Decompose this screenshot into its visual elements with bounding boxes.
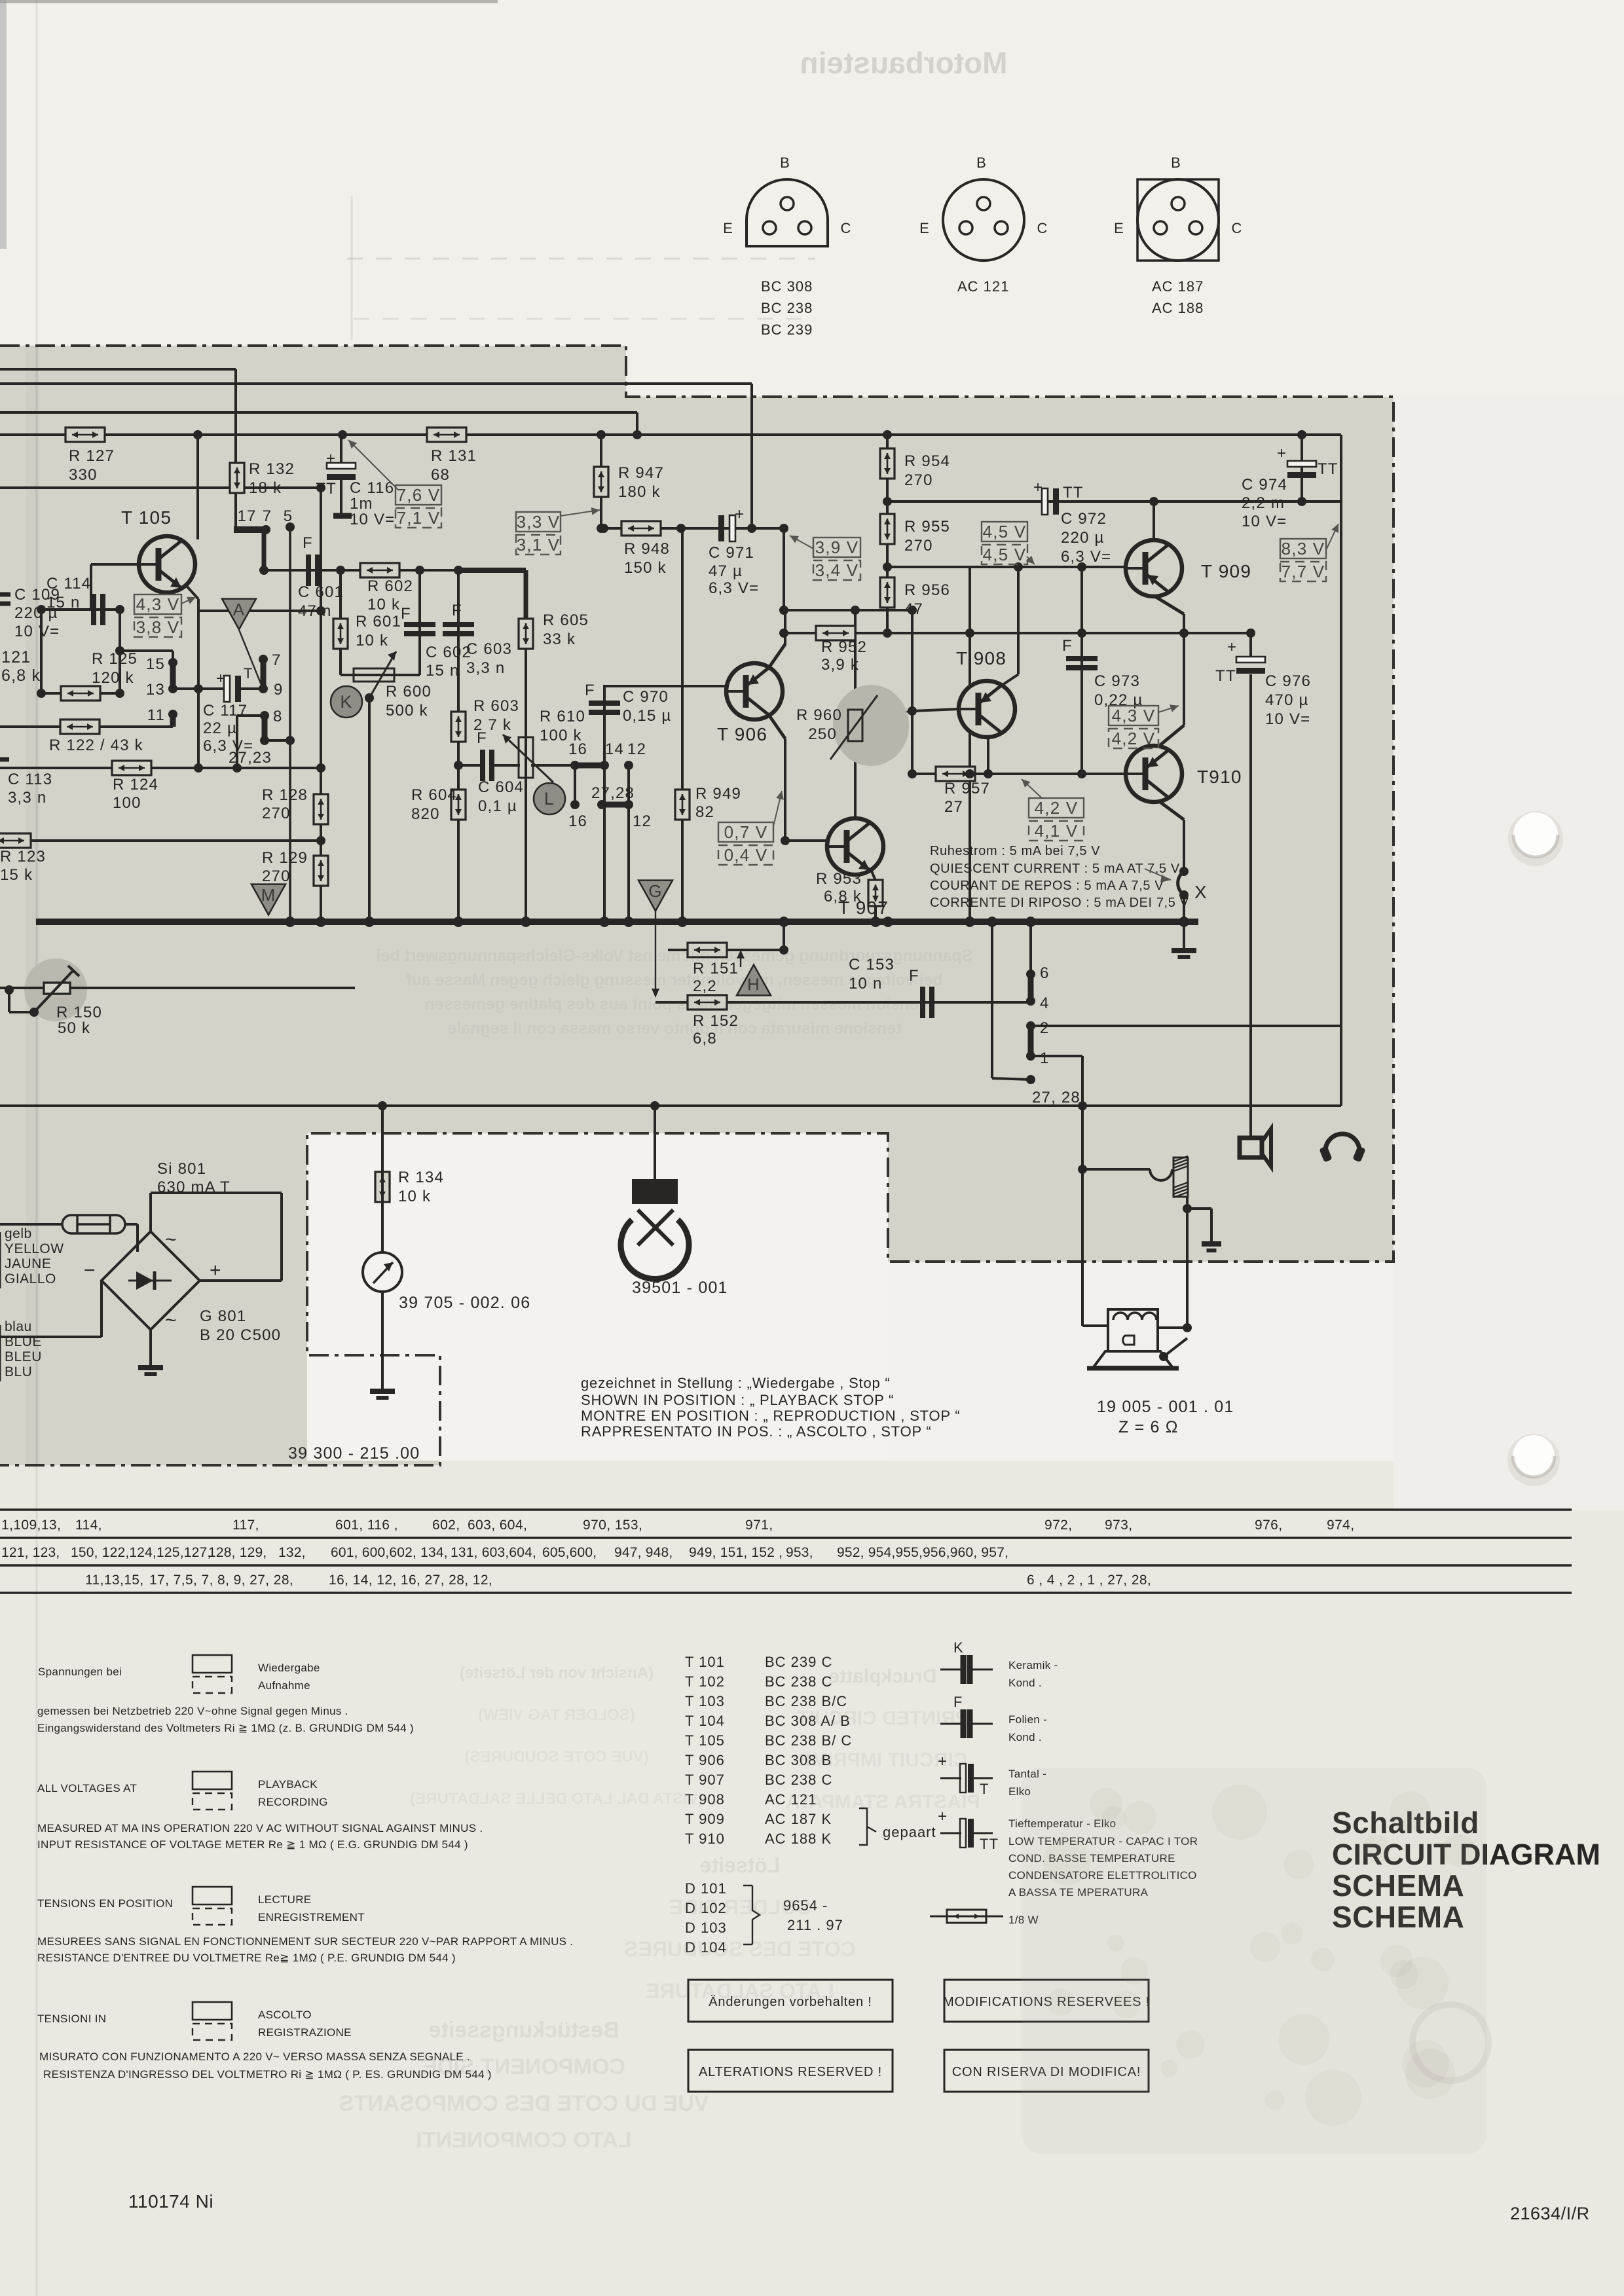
svg-text:Folien -: Folien - <box>1008 1713 1047 1726</box>
svg-text:M: M <box>261 885 276 905</box>
svg-text:G 801: G 801 <box>200 1307 246 1325</box>
svg-text:T 906: T 906 <box>685 1752 725 1768</box>
svg-text:6,3 V=: 6,3 V= <box>709 579 759 597</box>
svg-text:117,: 117, <box>232 1518 259 1533</box>
svg-text:131, 603,604,: 131, 603,604, <box>451 1545 536 1560</box>
svg-text:MONTRE EN POSITION : „ REP: MONTRE EN POSITION : „ REPRODUCTION , ST… <box>581 1408 961 1424</box>
svg-text:E: E <box>1114 220 1124 236</box>
svg-text:Spannungen bei: Spannungen bei <box>38 1666 122 1678</box>
svg-text:4,3 V: 4,3 V <box>1112 706 1156 725</box>
svg-text:YELLOW: YELLOW <box>5 1241 64 1256</box>
svg-text:R 123: R 123 <box>0 848 46 866</box>
svg-text:22 µ: 22 µ <box>203 720 237 737</box>
svg-text:BC 238 C: BC 238 C <box>765 1673 832 1690</box>
svg-text:BC 238 B/ C: BC 238 B/ C <box>765 1732 852 1749</box>
svg-text:VUE DU COTE DES COMPOSANTS: VUE DU COTE DES COMPOSANTS <box>339 2091 709 2116</box>
svg-text:L: L <box>544 789 555 809</box>
svg-text:27: 27 <box>944 798 963 816</box>
svg-text:605,600,: 605,600, <box>542 1545 597 1560</box>
svg-text:T 906: T 906 <box>717 724 767 744</box>
svg-text:121, 123,: 121, 123, <box>1 1545 60 1560</box>
svg-text:R 125: R 125 <box>92 650 138 668</box>
svg-text:R 124: R 124 <box>113 776 158 793</box>
svg-text:RECORDING: RECORDING <box>258 1796 328 1808</box>
svg-text:R 134: R 134 <box>398 1169 444 1186</box>
svg-text:INPUT RESISTANCE OF VOLTAGE: INPUT RESISTANCE OF VOLTAGE METER Re ≧ 1… <box>37 1838 468 1851</box>
svg-text:B: B <box>976 155 987 171</box>
svg-text:10 V=: 10 V= <box>1265 710 1310 728</box>
svg-text:1,109,13,: 1,109,13, <box>1 1518 61 1533</box>
svg-text:39 705 - 002. 06: 39 705 - 002. 06 <box>399 1294 530 1312</box>
svg-text:T 909: T 909 <box>685 1811 725 1827</box>
svg-text:C 601: C 601 <box>298 583 344 601</box>
svg-text:18 k: 18 k <box>249 479 282 497</box>
svg-text:11,13,15,: 11,13,15, <box>85 1573 144 1588</box>
svg-text:D 101: D 101 <box>685 1880 727 1897</box>
svg-text:BC 238 C: BC 238 C <box>765 1772 832 1788</box>
svg-text:11: 11 <box>147 706 165 724</box>
svg-text:T 102: T 102 <box>685 1673 725 1690</box>
svg-text:Lötseite: Lötseite <box>700 1853 781 1877</box>
svg-text:QUIESCENT CURRENT : 5 mA AT: QUIESCENT CURRENT : 5 mA AT 7,5 V <box>930 862 1180 876</box>
svg-text:B 20 C500: B 20 C500 <box>200 1326 281 1344</box>
svg-text:Druckplatte: Druckplatte <box>828 1666 936 1687</box>
svg-text:−: − <box>84 1260 96 1281</box>
svg-text:SHOWN IN POSITION : „ PLAY: SHOWN IN POSITION : „ PLAYBACK STOP “ <box>581 1392 894 1408</box>
svg-text:(VUE COTE SOUDURES): (VUE COTE SOUDURES) <box>464 1748 648 1766</box>
svg-text:COTE DES SOUDURES: COTE DES SOUDURES <box>624 1937 856 1961</box>
svg-text:~: ~ <box>165 1309 177 1331</box>
svg-text:T910: T910 <box>1197 767 1242 787</box>
svg-text:tension messen mitgegen mess p: tension messen mitgegen mess point aus d… <box>425 995 925 1013</box>
svg-text:(VISTA DAL LATO DELLE SALDATUR: (VISTA DAL LATO DELLE SALDATURE) <box>410 1790 703 1808</box>
svg-text:601, 116 ,: 601, 116 , <box>335 1518 398 1533</box>
svg-text:COMPONENT SIDE: COMPONENT SIDE <box>422 2054 625 2079</box>
svg-text:220 µ: 220 µ <box>1061 529 1105 547</box>
svg-text:Aufnahme: Aufnahme <box>258 1679 310 1692</box>
svg-text:47 n: 47 n <box>298 602 332 620</box>
svg-text:128, 129,: 128, 129, <box>208 1545 267 1560</box>
svg-text:PRINTED CIRCUIT: PRINTED CIRCUIT <box>797 1707 969 1729</box>
svg-text:TT: TT <box>980 1836 999 1852</box>
svg-text:121: 121 <box>1 648 31 666</box>
svg-text:R 604: R 604 <box>411 786 457 804</box>
svg-text:0,4 V: 0,4 V <box>724 845 768 865</box>
svg-text:270: 270 <box>904 471 933 489</box>
svg-text:6,8 k: 6,8 k <box>1 666 41 685</box>
svg-text:T 910: T 910 <box>685 1831 725 1847</box>
svg-text:8,3 V: 8,3 V <box>1282 539 1325 558</box>
svg-text:F: F <box>1062 637 1073 655</box>
svg-text:F: F <box>452 602 462 619</box>
svg-text:Ruhestrom : 5 mA bei 7,5 V: Ruhestrom : 5 mA bei 7,5 V <box>930 844 1100 858</box>
svg-text:F: F <box>477 729 487 747</box>
svg-text:132,: 132, <box>278 1545 306 1560</box>
svg-text:17, 7,5, 7, 8, 9, 27, 28,: 17, 7,5, 7, 8, 9, 27, 28, <box>149 1573 293 1588</box>
svg-text:MESUREES SANS SIGNAL EN FO: MESUREES SANS SIGNAL EN FONCTIONNEMENT S… <box>37 1935 573 1948</box>
svg-text:AC 187: AC 187 <box>1152 278 1204 295</box>
svg-text:47 µ: 47 µ <box>709 562 743 580</box>
svg-text:1m: 1m <box>350 495 373 513</box>
svg-text:+: + <box>735 505 745 523</box>
svg-text:B: B <box>780 155 790 171</box>
svg-text:949, 151, 152 ,: 949, 151, 152 , <box>689 1545 783 1560</box>
svg-text:470 µ: 470 µ <box>1265 691 1309 709</box>
svg-text:0,1 µ: 0,1 µ <box>478 797 517 815</box>
svg-text:82: 82 <box>695 803 714 821</box>
svg-text:C 109: C 109 <box>14 586 60 604</box>
svg-text:R 956: R 956 <box>904 581 950 599</box>
svg-text:971,: 971, <box>745 1518 773 1533</box>
svg-text:C: C <box>1037 220 1048 236</box>
svg-text:970, 153,: 970, 153, <box>583 1518 642 1533</box>
svg-text:0,15 µ: 0,15 µ <box>623 707 671 725</box>
svg-text:974,: 974, <box>1327 1518 1354 1533</box>
svg-text:12: 12 <box>627 740 646 758</box>
svg-text:F: F <box>585 682 595 699</box>
svg-text:TENSIONS EN POSITION: TENSIONS EN POSITION <box>37 1897 173 1910</box>
svg-text:REGISTRAZIONE: REGISTRAZIONE <box>258 2026 352 2039</box>
svg-text:R 600: R 600 <box>386 683 432 701</box>
svg-text:3,8 V: 3,8 V <box>136 617 180 637</box>
svg-text:ALTERATIONS RESERVED !: ALTERATIONS RESERVED ! <box>699 2065 882 2079</box>
svg-text:(SOLDER TAG VIEW): (SOLDER TAG VIEW) <box>478 1706 635 1724</box>
svg-text:LATO SALDATURE: LATO SALDATURE <box>646 1979 834 2003</box>
svg-text:952, 954,955,956,960, 957,: 952, 954,955,956,960, 957, <box>837 1545 1008 1560</box>
svg-text:14: 14 <box>605 740 624 758</box>
svg-text:27, 28: 27, 28 <box>1032 1089 1080 1106</box>
svg-text:T 908: T 908 <box>956 648 1006 668</box>
svg-text:T 907: T 907 <box>838 898 889 918</box>
svg-text:953,: 953, <box>786 1545 813 1560</box>
svg-text:+: + <box>210 1260 222 1281</box>
svg-text:~: ~ <box>165 1229 177 1250</box>
svg-text:R 955: R 955 <box>904 518 950 536</box>
svg-text:500 k: 500 k <box>386 702 428 720</box>
svg-text:C 970: C 970 <box>623 688 669 706</box>
svg-text:R 610: R 610 <box>540 708 585 725</box>
svg-text:16, 14, 12, 16, 27, 28,: 16, 14, 12, 16, 27, 28, 12, <box>329 1573 492 1588</box>
svg-text:BC 239: BC 239 <box>761 321 813 338</box>
svg-text:16: 16 <box>568 740 587 758</box>
svg-text:4,2 V: 4,2 V <box>1035 798 1079 818</box>
svg-text:COURANT DE REPOS : 5 mA A: COURANT DE REPOS : 5 mA A 7,5 V <box>930 879 1164 893</box>
svg-text:K: K <box>340 692 352 712</box>
svg-text:R 602: R 602 <box>367 577 413 595</box>
svg-text:F: F <box>303 534 313 552</box>
svg-text:C 603: C 603 <box>466 640 512 658</box>
svg-text:6: 6 <box>1040 964 1050 982</box>
svg-text:BLEU: BLEU <box>5 1349 42 1364</box>
svg-text:A: A <box>233 600 246 619</box>
svg-text:R 122 / 43 k: R 122 / 43 k <box>49 737 143 754</box>
svg-text:150, 122,124,125,127,: 150, 122,124,125,127, <box>71 1545 211 1560</box>
svg-text:270: 270 <box>262 805 291 822</box>
svg-text:17: 17 <box>237 507 256 525</box>
svg-text:ENREGISTREMENT: ENREGISTREMENT <box>258 1911 365 1923</box>
svg-text:150 k: 150 k <box>624 559 667 577</box>
svg-text:MEASURED AT MA INS OPERATIO: MEASURED AT MA INS OPERATION 220 V AC WI… <box>37 1822 483 1834</box>
svg-text:R 947: R 947 <box>618 464 664 482</box>
svg-text:220 µ: 220 µ <box>14 604 58 622</box>
svg-text:TT: TT <box>1215 667 1236 685</box>
svg-text:7,7 V: 7,7 V <box>1282 562 1325 581</box>
svg-text:27,28: 27,28 <box>591 784 635 802</box>
svg-text:4,5 V: 4,5 V <box>983 545 1027 564</box>
svg-text:JAUNE: JAUNE <box>5 1256 51 1271</box>
svg-text:AC 188 K: AC 188 K <box>765 1831 832 1847</box>
svg-text:+: + <box>1277 445 1287 462</box>
svg-text:7,6 V: 7,6 V <box>397 485 441 505</box>
svg-text:K: K <box>953 1639 964 1656</box>
svg-text:E: E <box>723 220 733 236</box>
svg-text:T 105: T 105 <box>685 1732 725 1749</box>
svg-text:601, 600,602, 134,: 601, 600,602, 134, <box>331 1545 448 1560</box>
svg-text:3,3 n: 3,3 n <box>8 789 46 807</box>
svg-text:C 972: C 972 <box>1061 510 1107 528</box>
svg-text:5: 5 <box>284 507 293 525</box>
svg-text:T 104: T 104 <box>685 1713 725 1729</box>
svg-text:R 960: R 960 <box>796 706 842 724</box>
svg-text:T: T <box>244 665 253 682</box>
svg-text:270: 270 <box>262 867 291 885</box>
svg-text:4,1 V: 4,1 V <box>1035 821 1079 841</box>
svg-text:X: X <box>1194 882 1208 902</box>
svg-text:CIRCUIT IMPRIME: CIRCUIT IMPRIME <box>798 1749 967 1771</box>
svg-text:120 k: 120 k <box>92 669 134 687</box>
svg-text:gelb: gelb <box>5 1226 32 1241</box>
svg-text:R 603: R 603 <box>473 697 519 715</box>
svg-text:R 129: R 129 <box>262 849 308 867</box>
svg-text:R 957: R 957 <box>944 780 990 797</box>
svg-text:T 105: T 105 <box>121 507 172 528</box>
svg-text:50 k: 50 k <box>58 1019 90 1037</box>
svg-text:B: B <box>1171 155 1181 171</box>
svg-text:R 127: R 127 <box>69 447 115 465</box>
svg-text:13: 13 <box>146 681 165 699</box>
svg-text:3,9 k: 3,9 k <box>821 656 859 674</box>
svg-text:blau: blau <box>5 1319 32 1334</box>
svg-text:4,5 V: 4,5 V <box>983 522 1027 541</box>
svg-text:100: 100 <box>113 794 141 812</box>
svg-text:3,3 V: 3,3 V <box>517 512 561 532</box>
svg-text:4: 4 <box>1040 994 1050 1012</box>
svg-text:16: 16 <box>568 812 587 830</box>
svg-text:7,1 V: 7,1 V <box>397 508 441 528</box>
svg-text:C 116: C 116 <box>350 479 394 497</box>
svg-text:15 k: 15 k <box>0 866 33 884</box>
svg-text:R 132: R 132 <box>249 460 295 478</box>
svg-text:C: C <box>840 220 851 236</box>
svg-text:TT: TT <box>1063 484 1084 501</box>
svg-text:9: 9 <box>274 681 284 699</box>
svg-text:C 602: C 602 <box>426 644 471 661</box>
svg-text:250: 250 <box>808 725 837 743</box>
svg-text:gezeichnet in Stellung : „: gezeichnet in Stellung : „Wiedergabe , S… <box>581 1375 891 1391</box>
svg-text:gemessen bei Netzbetrieb 22: gemessen bei Netzbetrieb 220 V~ohne Sign… <box>37 1705 348 1717</box>
svg-text:LATO COMPONENTI: LATO COMPONENTI <box>416 2128 631 2153</box>
svg-text:68: 68 <box>431 466 450 484</box>
svg-text:T 103: T 103 <box>685 1693 725 1709</box>
svg-text:PLAYBACK: PLAYBACK <box>258 1778 318 1791</box>
svg-text:AC 187 K: AC 187 K <box>765 1811 832 1827</box>
svg-text:CORRENTE DI RIPOSO : 5 mA: CORRENTE DI RIPOSO : 5 mA DEI 7,5 V <box>930 896 1189 910</box>
svg-text:10 V=: 10 V= <box>14 623 60 640</box>
svg-text:10 k: 10 k <box>367 596 400 613</box>
svg-text:6,3 V=: 6,3 V= <box>1061 548 1111 566</box>
svg-text:39501 - 001: 39501 - 001 <box>632 1279 728 1297</box>
svg-text:0,7 V: 0,7 V <box>724 822 768 842</box>
svg-text:C 117: C 117 <box>203 702 248 720</box>
svg-text:10 V=: 10 V= <box>350 511 395 528</box>
svg-text:gepaart: gepaart <box>883 1824 936 1840</box>
svg-text:10 k: 10 k <box>398 1188 431 1205</box>
svg-text:+: + <box>1227 638 1237 656</box>
svg-text:12: 12 <box>633 812 652 830</box>
svg-text:10 k: 10 k <box>356 632 388 649</box>
svg-text:973,: 973, <box>1105 1518 1132 1533</box>
svg-text:19 005 - 001 . 01: 19 005 - 001 . 01 <box>1097 1398 1234 1416</box>
svg-text:tensione misurata con il punto: tensione misurata con il punto verso mas… <box>447 1019 901 1038</box>
svg-text:PIASTRA STAMPATA: PIASTRA STAMPATA <box>786 1791 980 1813</box>
svg-text:Motorbaustein: Motorbaustein <box>800 46 1008 80</box>
svg-text:C 971: C 971 <box>709 544 754 562</box>
svg-text:R 150: R 150 <box>56 1004 102 1021</box>
svg-text:MISURATO CON FUNZIONAMENTO: MISURATO CON FUNZIONAMENTO A 220 V~ VERS… <box>39 2050 470 2063</box>
svg-text:330: 330 <box>69 466 98 484</box>
svg-text:AC 188: AC 188 <box>1152 300 1204 316</box>
svg-text:7: 7 <box>272 651 282 669</box>
svg-text:947, 948,: 947, 948, <box>614 1545 673 1560</box>
svg-text:3,1 V: 3,1 V <box>517 535 561 555</box>
svg-text:Spannungszuordnung gemessen mi: Spannungszuordnung gemessen mit meinst V… <box>377 947 973 965</box>
svg-text:33 k: 33 k <box>543 630 576 648</box>
svg-text:3,9 V: 3,9 V <box>815 538 859 557</box>
svg-text:SOLDER SIDE: SOLDER SIDE <box>669 1895 811 1919</box>
svg-text:TENSIONI IN: TENSIONI IN <box>37 2013 106 2025</box>
svg-text:6 , 4 , 2 , 1 , 27, 28,: 6 , 4 , 2 , 1 , 27, 28, <box>1027 1573 1151 1588</box>
svg-text:39 300 - 215 .00: 39 300 - 215 .00 <box>288 1444 420 1463</box>
svg-text:R 605: R 605 <box>543 611 589 629</box>
svg-text:TT: TT <box>1318 460 1338 478</box>
svg-text:180 k: 180 k <box>618 483 661 501</box>
svg-text:603, 604,: 603, 604, <box>468 1518 527 1533</box>
svg-text:+: + <box>326 450 336 467</box>
svg-text:R 128: R 128 <box>262 786 308 804</box>
svg-text:270: 270 <box>904 537 933 555</box>
svg-text:BLU: BLU <box>5 1364 32 1379</box>
svg-text:E: E <box>919 220 930 236</box>
svg-text:R 952: R 952 <box>821 638 867 656</box>
svg-text:Bestückungsseite: Bestückungsseite <box>429 2018 619 2043</box>
svg-text:RAPPRESENTATO IN POS. : „ AS: RAPPRESENTATO IN POS. : „ ASCOLTO , STOP… <box>581 1423 932 1440</box>
svg-text:(Ansicht von der Lötseite): (Ansicht von der Lötseite) <box>460 1664 654 1682</box>
svg-text:C 604: C 604 <box>478 778 524 796</box>
svg-text:bei voltages messen, mit voltm: bei voltages messen, mit voltmeter messu… <box>405 971 942 989</box>
svg-text:+: + <box>1033 479 1043 496</box>
svg-text:C 974: C 974 <box>1242 476 1287 494</box>
svg-text:27,23: 27,23 <box>229 749 272 767</box>
svg-text:LECTURE: LECTURE <box>258 1893 311 1906</box>
svg-text:BC 238: BC 238 <box>761 300 813 316</box>
svg-text:10 V=: 10 V= <box>1242 513 1287 530</box>
svg-text:D 103: D 103 <box>685 1920 727 1936</box>
svg-text:Keramik -: Keramik - <box>1008 1659 1058 1671</box>
svg-text:R 949: R 949 <box>695 785 741 803</box>
svg-text:2: 2 <box>1040 1019 1050 1037</box>
svg-text:2,2 m: 2,2 m <box>1242 494 1285 512</box>
svg-text:R 131: R 131 <box>431 447 477 465</box>
svg-text:976,: 976, <box>1255 1518 1282 1533</box>
svg-text:15 n: 15 n <box>426 662 460 680</box>
svg-text:21634/I/R: 21634/I/R <box>1510 2204 1590 2223</box>
svg-text:BC 239 C: BC 239 C <box>765 1654 832 1670</box>
svg-text:R 954: R 954 <box>904 452 950 470</box>
svg-text:4,3 V: 4,3 V <box>136 594 180 614</box>
svg-text:Kond .: Kond . <box>1008 1677 1042 1689</box>
svg-text:7: 7 <box>263 507 272 525</box>
svg-text:R 601: R 601 <box>356 613 401 630</box>
svg-text:+: + <box>216 670 226 687</box>
svg-text:AC 121: AC 121 <box>957 278 1009 295</box>
svg-text:Z = 6 Ω: Z = 6 Ω <box>1118 1418 1179 1436</box>
svg-text:G: G <box>648 881 662 901</box>
svg-text:4,2 V: 4,2 V <box>1112 729 1156 748</box>
svg-text:F: F <box>401 605 411 623</box>
svg-text:8: 8 <box>273 708 283 725</box>
svg-text:BC 308: BC 308 <box>761 278 813 295</box>
svg-text:R 948: R 948 <box>624 540 670 558</box>
svg-text:1: 1 <box>1040 1049 1050 1067</box>
svg-text:GIALLO: GIALLO <box>5 1271 56 1286</box>
svg-text:ALL VOLTAGES AT: ALL VOLTAGES AT <box>37 1782 137 1795</box>
svg-text:T: T <box>980 1781 989 1797</box>
svg-text:RESISTANCE D'ENTREE DU VOLT: RESISTANCE D'ENTREE DU VOLTMETRE Re≧ 1MΩ… <box>37 1952 456 1964</box>
svg-text:820: 820 <box>411 805 440 823</box>
svg-text:3,3 n: 3,3 n <box>466 659 505 677</box>
svg-text:Si 801: Si 801 <box>157 1160 206 1178</box>
svg-text:Eingangswiderstand des Voltm: Eingangswiderstand des Voltmeters Ri ≧ 1… <box>37 1722 414 1734</box>
svg-text:C: C <box>1231 220 1242 236</box>
svg-text:110174 Ni: 110174 Ni <box>128 2191 213 2212</box>
svg-text:C 973: C 973 <box>1094 672 1140 690</box>
svg-text:BLUE: BLUE <box>5 1334 42 1349</box>
svg-text:C 113: C 113 <box>8 771 52 788</box>
svg-text:211 . 97: 211 . 97 <box>787 1917 843 1933</box>
svg-text:972,: 972, <box>1044 1518 1072 1533</box>
svg-text:Kond .: Kond . <box>1008 1731 1042 1743</box>
svg-text:T 907: T 907 <box>685 1772 725 1788</box>
svg-text:114,: 114, <box>75 1518 102 1533</box>
svg-text:C 976: C 976 <box>1265 672 1311 690</box>
svg-text:T 101: T 101 <box>685 1654 725 1670</box>
svg-text:3,4 V: 3,4 V <box>815 560 859 580</box>
svg-text:15: 15 <box>146 655 165 673</box>
svg-text:Wiedergabe: Wiedergabe <box>258 1662 320 1674</box>
svg-text:ASCOLTO: ASCOLTO <box>258 2009 312 2021</box>
svg-text:T 909: T 909 <box>1201 561 1251 581</box>
svg-text:602,: 602, <box>432 1518 460 1533</box>
